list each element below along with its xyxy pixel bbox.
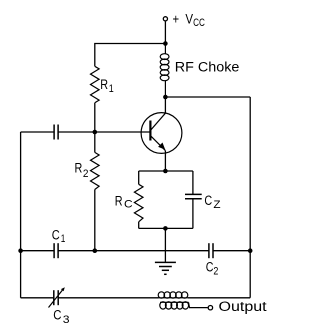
svg-text:3: 3 xyxy=(63,314,70,326)
svg-text:2: 2 xyxy=(213,265,218,277)
capacitor coupling (input, unlabeled) xyxy=(21,125,95,140)
svg-text:Z: Z xyxy=(213,199,220,211)
resistor R2 xyxy=(91,132,100,251)
svg-text:R: R xyxy=(115,193,123,208)
capacitor CZ xyxy=(185,171,202,228)
wire left rail xyxy=(20,132,22,298)
svg-text:CC: CC xyxy=(193,17,205,29)
svg-text:C: C xyxy=(53,308,61,323)
svg-text:C: C xyxy=(52,227,60,242)
transistor Q1 xyxy=(141,97,182,171)
svg-text:Output: Output xyxy=(219,299,267,314)
svg-text:R: R xyxy=(75,161,83,176)
svg-text:RF Choke: RF Choke xyxy=(175,60,240,75)
svg-text:C: C xyxy=(124,199,133,211)
wire C1 to C2 xyxy=(58,250,209,252)
svg-text:1: 1 xyxy=(109,83,114,95)
wire base xyxy=(95,131,151,133)
wire Vcc terminal to junction xyxy=(164,22,166,44)
wire emitter network top xyxy=(139,170,193,172)
node junction emitter top xyxy=(163,169,168,174)
capacitor C1 xyxy=(21,243,59,258)
node junction right rail / C2 xyxy=(248,248,253,253)
wire Vcc junction to R1 top xyxy=(95,44,166,67)
svg-text:+: + xyxy=(173,11,180,26)
capacitor C3 (variable) xyxy=(49,287,65,307)
inductor RF choke xyxy=(160,44,169,98)
svg-text:V: V xyxy=(185,11,193,26)
svg-text:1: 1 xyxy=(61,233,66,245)
svg-text:R: R xyxy=(100,77,108,92)
wire secondary to output terminal xyxy=(189,302,208,307)
node junction base/R1/R2 xyxy=(93,130,98,135)
svg-text:C: C xyxy=(204,193,212,208)
wire primary to right rail xyxy=(188,297,250,299)
wire R1 bottom to base junction xyxy=(94,103,96,132)
svg-text:2: 2 xyxy=(83,168,89,180)
ground xyxy=(155,262,176,274)
wire right rail vertical xyxy=(249,97,251,298)
resistor RC xyxy=(134,171,143,228)
wire emitter junction to ground xyxy=(164,228,166,262)
node +Vcc terminal xyxy=(163,17,167,21)
node output terminal xyxy=(208,306,212,310)
node junction Vcc xyxy=(163,41,168,46)
node junction R2/C1 xyxy=(93,248,98,253)
wire bottom left to C3 xyxy=(21,297,54,299)
wire C3 to transformer primary xyxy=(58,297,158,299)
wire collector junction to right rail xyxy=(165,96,250,98)
inductor transformer primary xyxy=(158,292,188,298)
resistor R1 xyxy=(91,66,100,103)
capacitor C2 xyxy=(209,243,250,258)
node junction emitter bottom xyxy=(163,226,168,231)
inductor transformer secondary xyxy=(160,302,189,309)
node junction C1 left xyxy=(18,248,23,253)
node junction collector xyxy=(163,95,168,100)
wire emitter network bottom xyxy=(139,227,193,229)
